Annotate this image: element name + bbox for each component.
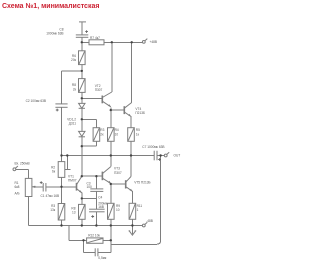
svg-text:1: 1 bbox=[137, 208, 139, 212]
wire: ground rail bbox=[29, 225, 143, 227]
transistor VT3 bbox=[101, 172, 103, 181]
node: R12 left / C13 branch bbox=[82, 239, 84, 241]
wire: VT5 emitter down to R11 bbox=[131, 191, 133, 203]
ground bar above C8 bbox=[79, 21, 86, 23]
svg-text:R8: R8 bbox=[72, 83, 76, 87]
capacitor C3 plates bbox=[90, 188, 103, 190]
node: mid rail / R2 wiper bbox=[66, 154, 68, 156]
wire: VT1 collector node line to VT3 base bbox=[82, 175, 102, 177]
wire: R12 right wire bbox=[103, 239, 111, 241]
svg-text:10: 10 bbox=[115, 132, 119, 136]
svg-text:6к8: 6к8 bbox=[15, 185, 20, 189]
diode VD2 bbox=[79, 131, 85, 136]
wire: node B branch right bbox=[82, 118, 97, 120]
node: ground rail / C4 bottom bbox=[95, 224, 97, 226]
wire: C3 to C4 junction bbox=[95, 191, 97, 209]
resistor R12 horizontal bbox=[87, 238, 103, 243]
terminal input bbox=[13, 168, 16, 171]
plus C8 bbox=[85, 30, 88, 33]
wire: mid rail after C7 to OUT bbox=[157, 155, 164, 157]
wire: wiper arrow wire from C1 bbox=[34, 186, 43, 188]
wire: R6 to VD node bbox=[81, 92, 83, 103]
svg-text:C1 47мк 16В: C1 47мк 16В bbox=[41, 194, 60, 198]
wire: R5 down to mid rail bbox=[130, 141, 132, 155]
wire: VT4 collector up to rail bbox=[131, 42, 133, 102]
node: VT1 emitter bbox=[81, 197, 83, 199]
wire: VT3 emitter down bbox=[110, 183, 112, 203]
node: ground rail / R3 bottom bbox=[60, 224, 62, 226]
node A: VT2 emitter / VT4 base bbox=[110, 109, 112, 111]
svg-text:C7 1000мк 63В: C7 1000мк 63В bbox=[142, 145, 164, 149]
transistor VT4 bbox=[123, 106, 125, 114]
resistor R7 horizontal bbox=[89, 40, 104, 45]
terminal 0V bbox=[142, 224, 145, 227]
node: ground rail / R11 / ground symbol bbox=[131, 224, 133, 226]
wire: C13 right riser bbox=[110, 226, 112, 253]
wire: C8 stem top bbox=[81, 22, 83, 35]
transistor VT2 bbox=[101, 96, 103, 104]
plus C2 bbox=[56, 109, 59, 112]
diode VD1 bbox=[79, 103, 85, 108]
node: C8 / R7 filter junction bbox=[81, 41, 83, 43]
wire: R9 bottom to ground rail bbox=[110, 219, 112, 225]
svg-text:П307: П307 bbox=[114, 171, 122, 175]
wire: node C down across mid rail to VT1 collector node bbox=[81, 146, 83, 176]
wire: VT1 emitter node branch right bbox=[82, 197, 97, 199]
wire: VT5 collector to mid rail bbox=[130, 156, 132, 177]
svg-text:2к: 2к bbox=[73, 87, 77, 91]
wire: branch to C2 horizontal bbox=[62, 70, 82, 72]
wire: top rail right segment to terminal bbox=[104, 41, 142, 43]
wire: R3 bottom jog bbox=[95, 141, 97, 146]
node: +48V rail / VT4 collector bbox=[131, 41, 133, 43]
node B: VD1/VD2 junction / R3 tap bbox=[81, 118, 83, 120]
wire: VT1 base line bbox=[46, 186, 76, 188]
node: R12 right / feedback line bbox=[110, 239, 112, 241]
wire: VD2 to node C bbox=[81, 137, 83, 146]
node: ground rail / R9 bottom bbox=[110, 224, 112, 226]
wire: VT2 collector up to rail bbox=[111, 42, 113, 92]
svg-text:П213Б: П213Б bbox=[135, 111, 145, 115]
wire: R2 drop from mid rail bbox=[61, 156, 63, 162]
svg-text:Д311: Д311 bbox=[69, 122, 76, 126]
svg-text:13к: 13к bbox=[50, 208, 56, 212]
capacitor C13 plates bbox=[94, 248, 96, 256]
svg-text:А/Б: А/Б bbox=[15, 192, 20, 196]
node: mid rail / C2 / R2 bbox=[60, 154, 62, 156]
wire: R2 wiper riser bbox=[66, 156, 68, 170]
wiper arrow into R1 bbox=[32, 186, 36, 188]
capacitor C1 plates bbox=[42, 183, 44, 192]
wire: C3 stem up bbox=[95, 176, 97, 189]
svg-text:20к: 20к bbox=[71, 58, 77, 62]
node: +48V rail / VT2 collector bbox=[111, 41, 113, 43]
capacitor C8 plates bbox=[76, 34, 89, 36]
title bbox=[2, 3, 99, 10]
svg-text:13: 13 bbox=[72, 211, 76, 215]
node: ground rail / R8 bottom bbox=[81, 224, 83, 226]
resistor R5 bbox=[128, 128, 135, 142]
transistor VT5 bbox=[125, 180, 127, 188]
node: VD1 anode / VT2 base bbox=[81, 97, 83, 99]
svg-text:OUT: OUT bbox=[174, 154, 181, 158]
node: C3 tap on VT3 base line bbox=[95, 175, 97, 177]
wire: R2 wiper bar bbox=[65, 169, 71, 171]
wire: pot bottom to ground rail bbox=[28, 197, 30, 226]
wire: VT4 emitter down to R5 bbox=[130, 116, 132, 128]
svg-text:C2 100мк 63В: C2 100мк 63В bbox=[26, 99, 46, 103]
resistor R3b lower bias bbox=[58, 204, 65, 221]
wire: branch down to R3 bbox=[95, 119, 97, 127]
capacitor C4 plates bbox=[89, 208, 105, 210]
capacitor C2 plates bbox=[55, 103, 67, 105]
svg-text:0,5мк: 0,5мк bbox=[98, 256, 107, 260]
svg-text:-48В: -48В bbox=[146, 219, 153, 223]
wire: R8 bottom to ground rail bbox=[81, 219, 83, 225]
resistor R2 bbox=[58, 162, 65, 178]
svg-text:10: 10 bbox=[116, 208, 120, 212]
resistor R6 vertical bbox=[79, 79, 86, 93]
node: bias chain / C2 bootstrap tap bbox=[81, 70, 83, 72]
svg-text:R7 4к7: R7 4к7 bbox=[90, 36, 100, 40]
potentiometer R1 bbox=[25, 178, 32, 196]
resistor Ra vertical bbox=[79, 51, 86, 65]
terminal +48V bbox=[142, 41, 145, 44]
wire: feedback drop from ground rail bbox=[68, 226, 70, 241]
node: mid rail / R4 / VT3 collector bbox=[110, 154, 112, 156]
plus C7 bbox=[158, 158, 161, 161]
plus C4 bbox=[91, 215, 94, 218]
svg-text:2к: 2к bbox=[100, 132, 104, 136]
ground symbol arrow bbox=[129, 231, 136, 236]
svg-text:VT5 П213Б: VT5 П213Б bbox=[134, 181, 150, 185]
wire: C4 bottom to ground rail bbox=[95, 212, 97, 226]
svg-text:R6: R6 bbox=[72, 54, 76, 58]
resistor R8 bbox=[79, 204, 86, 219]
svg-text:100: 100 bbox=[87, 185, 93, 189]
node: mid rail / R5 / VT5 collector bbox=[130, 154, 132, 156]
wire: C8 stem bottom bbox=[81, 37, 83, 51]
node: VT1 base / R2-R3 divider bbox=[60, 186, 62, 188]
wire: C1 to base wire bbox=[45, 186, 47, 188]
wire: C2 vertical upper bbox=[61, 71, 63, 104]
resistor R3 bbox=[93, 128, 100, 142]
wire: chain between Ra and R6 bbox=[81, 65, 83, 79]
wire: VT3 collector to mid rail bbox=[110, 156, 112, 167]
wire: base line to R3b bbox=[61, 187, 63, 204]
resistor R4 bbox=[108, 128, 115, 142]
node: VT3 emitter / VT5 base bbox=[110, 183, 112, 185]
svg-text:ПМ07: ПМ07 bbox=[68, 179, 77, 183]
plus C1 bbox=[40, 181, 43, 184]
wire: top rail left segment bbox=[82, 41, 89, 43]
svg-text:R12 10к: R12 10к bbox=[88, 234, 100, 238]
svg-text:6к: 6к bbox=[52, 170, 56, 174]
wire: R2 bottom to base line bbox=[61, 177, 63, 186]
svg-text:16В: 16В bbox=[98, 205, 104, 209]
wire: input wire bbox=[16, 168, 29, 170]
wire: mid rail bbox=[62, 155, 155, 157]
svg-text:Вх. 250мВ: Вх. 250мВ bbox=[15, 161, 30, 165]
wire: C13 left horizontal bbox=[84, 251, 96, 253]
wire: C13 left riser bbox=[83, 240, 85, 252]
wire: feedback from OUT vertical bbox=[111, 156, 161, 245]
svg-text:C4: C4 bbox=[98, 196, 102, 200]
node: output / feedback tap bbox=[159, 154, 161, 156]
wire: C2 vertical lower bbox=[61, 107, 63, 155]
wire: VT3 emitter to VT5 base bbox=[111, 183, 126, 185]
wire: R11 bottom to ground rail bbox=[131, 219, 133, 225]
capacitor C7 output plates bbox=[153, 151, 155, 161]
svg-text:1000мк 63В: 1000мк 63В bbox=[46, 32, 63, 36]
resistor R9 bbox=[108, 203, 115, 219]
wire: node A wire to VT4 base bbox=[110, 108, 112, 128]
node: VT1 collector / VT3 base line bbox=[81, 175, 83, 177]
wire: ground symbol stem bbox=[131, 226, 133, 235]
svg-text:П307: П307 bbox=[95, 88, 103, 92]
wire: VT1 emitter down to R8 bbox=[81, 193, 83, 205]
wire: R4 down to mid rail bbox=[110, 141, 112, 155]
wire: VT2 base wire bbox=[82, 97, 102, 99]
resistor R11 bbox=[129, 203, 136, 219]
wire: C13 right horizontal bbox=[98, 251, 111, 253]
wire: R12 left wire bbox=[69, 239, 87, 241]
svg-text:1к: 1к bbox=[136, 132, 140, 136]
wire: VD1 to node B bbox=[81, 108, 83, 131]
transistor VT1 bbox=[76, 183, 78, 191]
wire: R3b bottom to ground rail bbox=[61, 220, 63, 226]
node C: VD2 cathode / R3 bottom bbox=[81, 145, 83, 147]
svg-text:+48В: +48В bbox=[150, 40, 158, 44]
terminal OUT bbox=[164, 154, 167, 157]
